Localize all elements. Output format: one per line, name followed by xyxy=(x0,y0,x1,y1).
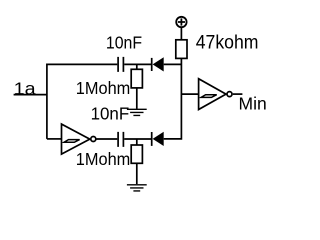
svg-text:1Mohm: 1Mohm xyxy=(76,78,131,98)
svg-text:10nF: 10nF xyxy=(106,33,142,53)
svg-text:47kohm: 47kohm xyxy=(196,33,259,54)
svg-text:Min: Min xyxy=(239,93,267,113)
svg-text:10nF: 10nF xyxy=(91,104,130,124)
svg-text:1Mohm: 1Mohm xyxy=(76,149,131,169)
svg-text:1a: 1a xyxy=(14,78,36,98)
